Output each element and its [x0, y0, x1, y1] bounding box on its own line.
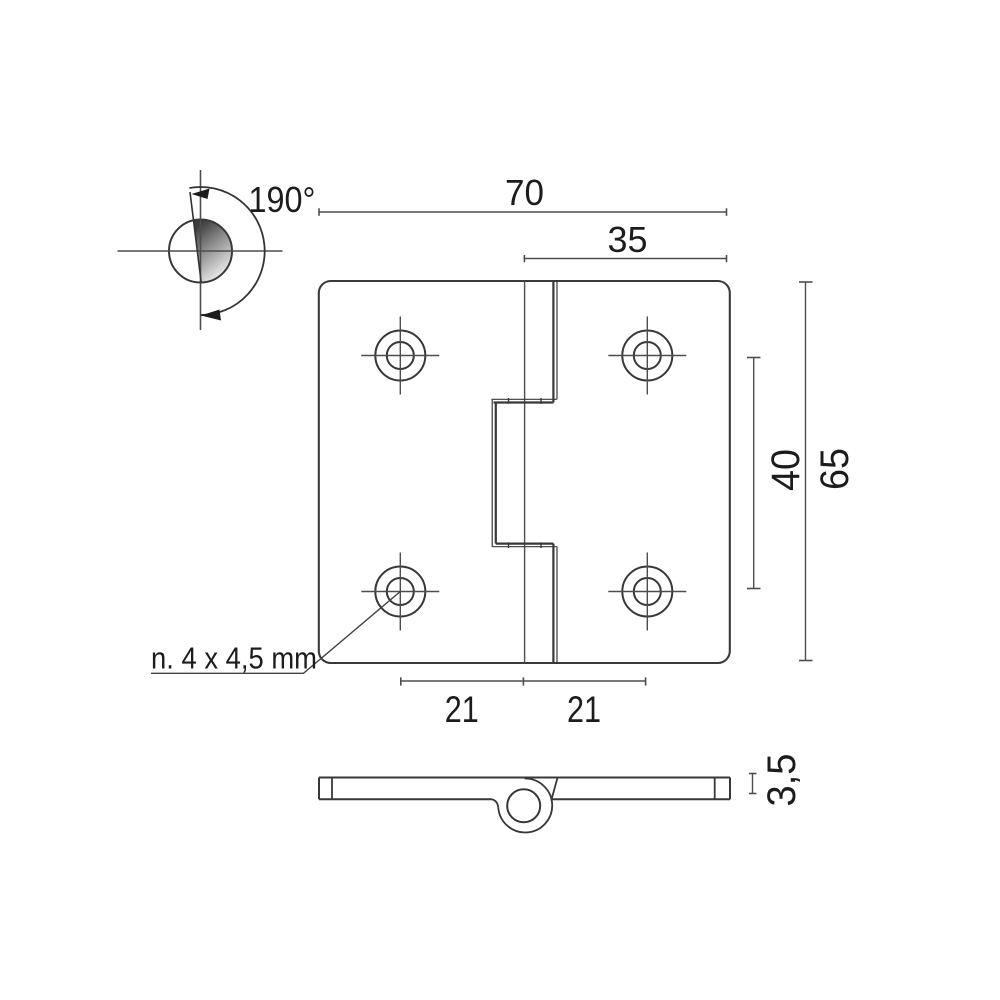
upper step thick line	[494, 401, 554, 403]
dimension line 70	[319, 211, 727, 213]
knuckle edge middle thin	[491, 399, 493, 546]
arrowhead bottom	[201, 310, 221, 321]
hole bottom-left inner	[387, 578, 414, 605]
side view: pin hole circle	[507, 789, 540, 822]
svg-text:65: 65	[813, 448, 857, 490]
side view: left inner end line	[331, 778, 333, 800]
svg-text:21: 21	[445, 689, 479, 730]
svg-text:n. 4 x 4,5 mm: n. 4 x 4,5 mm	[151, 641, 317, 676]
hole top-right outer	[622, 331, 672, 381]
dimension line 35	[524, 258, 726, 260]
side view: top edge	[319, 777, 730, 779]
svg-text:35: 35	[608, 219, 648, 260]
lower step tick right	[540, 542, 542, 548]
side view: fillet into knuckle	[492, 799, 499, 808]
lower step thick line	[496, 542, 554, 544]
dimension line 21 21	[401, 680, 646, 682]
knuckle edge middle thick	[495, 403, 497, 544]
dimension line 65	[805, 282, 807, 661]
hole top-left crosshair	[361, 355, 439, 357]
svg-text:3,5: 3,5	[760, 754, 804, 807]
leader line to bottom-left hole	[151, 592, 400, 674]
lower step thin line	[492, 546, 557, 548]
knuckle edge upper thick	[552, 281, 554, 403]
hole bottom-right crosshair	[608, 591, 686, 593]
hole bottom-right inner	[634, 578, 661, 605]
hole top-right inner	[634, 342, 661, 369]
hole bottom-right outer	[622, 567, 672, 617]
hole bottom-left outer	[375, 567, 425, 617]
svg-text:21: 21	[567, 689, 601, 730]
arrowhead top	[192, 189, 210, 200]
svg-text:190°: 190°	[249, 179, 316, 220]
upper step tick left	[508, 398, 510, 404]
opening angle symbol: pivot circle	[169, 220, 232, 283]
hinge plate outline	[319, 281, 730, 663]
side view: bottom edge right	[552, 798, 731, 800]
opening angle symbol: tilted leaf line	[190, 192, 201, 283]
dimension 3,5 tick line	[752, 774, 754, 794]
svg-text:70: 70	[505, 172, 544, 213]
side view: right end edge	[729, 778, 731, 800]
upper step thin line	[492, 398, 558, 400]
190 degree arc	[189, 187, 264, 315]
side view: curl end face	[551, 778, 557, 801]
opening angle symbol: horizontal centerline	[118, 250, 283, 252]
side view: knuckle outer curl	[498, 778, 552, 832]
hole top-left outer	[375, 331, 425, 381]
knuckle edge lower thick	[552, 544, 554, 663]
hole top-right crosshair	[608, 355, 686, 357]
opening angle symbol: half-disc gradient fill	[194, 220, 233, 283]
dimension line 40	[753, 358, 755, 589]
svg-text:40: 40	[764, 449, 808, 491]
side view: left end edge	[318, 778, 320, 800]
upper step tick right	[540, 398, 542, 404]
knuckle edge upper thin	[556, 281, 558, 399]
hole top-left inner	[387, 342, 414, 369]
lower step tick left	[508, 542, 510, 548]
hole bottom-left crosshair	[361, 591, 439, 593]
hinge pin centerline	[524, 281, 526, 663]
knuckle edge lower thin	[556, 547, 558, 663]
side view: bottom edge left	[319, 798, 492, 800]
side view: right inner end line	[714, 778, 716, 800]
opening angle symbol: vertical centerline	[200, 170, 202, 330]
